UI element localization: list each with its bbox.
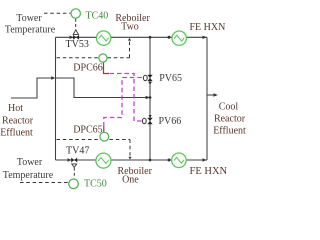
valve PV66 actuator: [142, 118, 146, 123]
svg-text:FE HXN: FE HXN: [190, 22, 226, 33]
svg-text:Reactor: Reactor: [2, 116, 34, 127]
valve PV66: [147, 118, 152, 124]
node: junction bypass / manifold: [149, 96, 152, 99]
svg-text:PV65: PV65: [159, 73, 182, 84]
svg-text:Effluent: Effluent: [0, 128, 33, 139]
svg-text:Reactor: Reactor: [214, 114, 246, 125]
wire: dashed DPC65 right tap: [110, 139, 131, 141]
valve TV47: [71, 158, 77, 163]
wire: top flow line: [56, 36, 208, 38]
wire: dashed DPC65 left tap: [57, 139, 99, 141]
wire: DPC65 output bracket: [103, 126, 105, 132]
svg-text:Effluent: Effluent: [213, 126, 246, 137]
svg-text:FE HXN: FE HXN: [190, 166, 228, 177]
wire: main vertical pipe: [55, 37, 57, 160]
svg-text:DPC66: DPC66: [73, 62, 102, 73]
instrument TC40: [71, 9, 80, 18]
valve PV65 actuator: [143, 75, 147, 80]
wire: cool effluent outlet: [207, 94, 216, 96]
svg-text:One: One: [122, 175, 139, 186]
node: junction top line / manifold: [149, 36, 152, 39]
wire: bottom flow line: [56, 159, 208, 161]
svg-text:Hot: Hot: [8, 103, 23, 114]
instrument DPC66 bubble: [99, 54, 107, 62]
svg-text:Two: Two: [121, 22, 139, 33]
instrument DPC65 bubble: [100, 132, 109, 141]
svg-text:DPC65: DPC65: [73, 125, 102, 136]
wire: bypass to manifold: [56, 78, 148, 98]
wire: dashed DPC66 left tap: [57, 57, 99, 59]
wire: flow arrow before top right corner: [203, 36, 207, 39]
node: junction bottom line / manifold: [149, 159, 152, 162]
wire: right collector vertical: [206, 37, 208, 160]
svg-text:TV47: TV47: [66, 146, 89, 157]
wire: valve manifold vertical: [149, 37, 151, 160]
valve TV53 actuator: [73, 30, 78, 35]
valve PV65: [147, 75, 152, 81]
svg-text:Temperature: Temperature: [3, 170, 54, 181]
wire: dashed signal tower temp to TC40: [44, 12, 70, 14]
wire: flow arrow before bottom right corner: [203, 158, 207, 161]
svg-text:TC50: TC50: [84, 178, 107, 189]
instrument TC50: [69, 179, 79, 189]
svg-text:Tower: Tower: [17, 157, 43, 168]
valve TV53: [73, 35, 79, 40]
wire: dashed TC40 to TV53 actuator: [75, 19, 77, 30]
wire: dashed TV47 actuator to TC50: [73, 168, 75, 178]
heat exchanger Reboiler One: [96, 153, 111, 168]
svg-text:Temperature: Temperature: [5, 25, 56, 36]
svg-text:TC40: TC40: [86, 11, 109, 22]
wire: dashed tower temp to TC50: [20, 182, 68, 184]
wire: flow arrow before TV47: [68, 158, 72, 161]
heat exchanger FE HXN top: [172, 31, 186, 45]
svg-text:PV66: PV66: [159, 116, 182, 127]
wire: hot effluent inlet: [11, 78, 54, 98]
wire: flow arrow before TV53: [70, 36, 74, 39]
heat exchanger FE HXN bottom: [172, 153, 187, 168]
svg-text:Tower: Tower: [16, 13, 42, 24]
node: FE HXN bottom inlet: [168, 159, 171, 162]
svg-text:TV53: TV53: [66, 39, 89, 50]
wire: magenta signal DPC65 to PV65: [104, 78, 143, 127]
wire: dashed DPC66 right tap: [108, 57, 130, 59]
wire: magenta signal DPC66 to PV66: [110, 74, 142, 122]
heat exchanger Reboiler Two: [96, 31, 110, 45]
valve TV47 actuator: [72, 164, 77, 168]
node: FE HXN top inlet: [168, 36, 171, 39]
svg-text:Cool: Cool: [219, 102, 239, 113]
wire: DPC66 output bracket: [104, 63, 110, 74]
